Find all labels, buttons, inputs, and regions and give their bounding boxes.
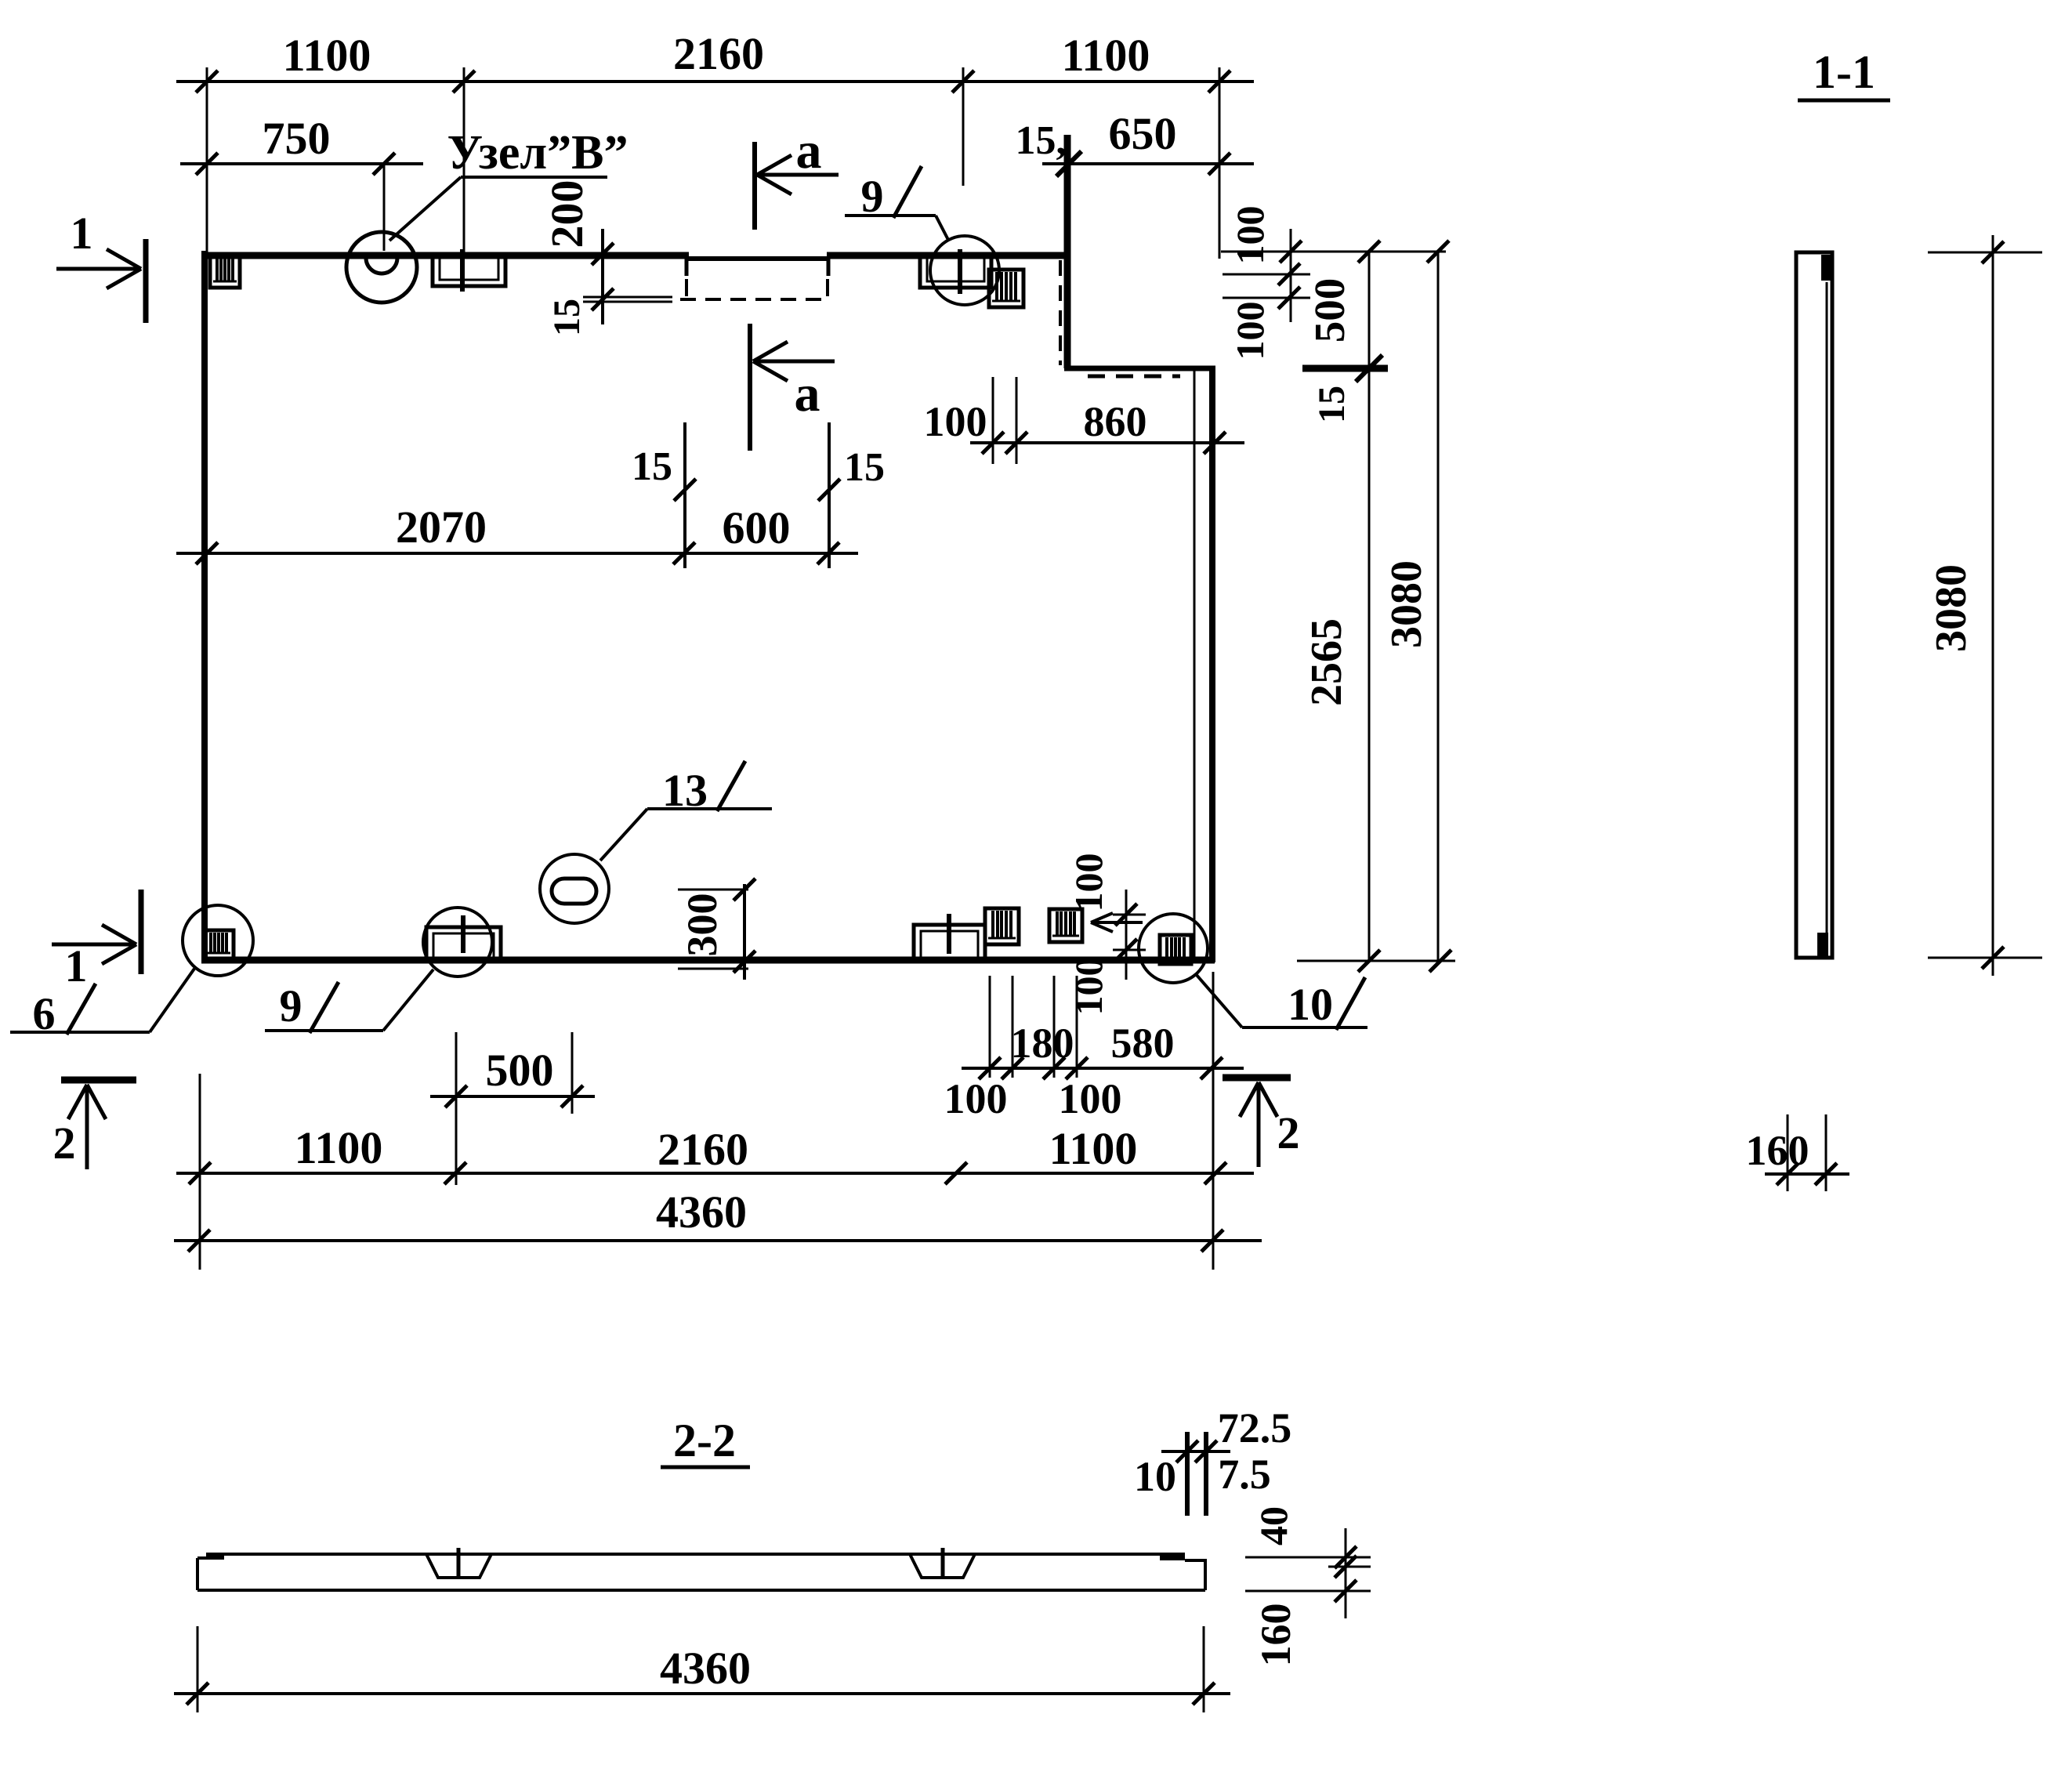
svg-text:160: 160 <box>1252 1603 1299 1667</box>
svg-text:1100: 1100 <box>295 1122 383 1173</box>
panel plan notch bottom hidden line (dashed) <box>1088 375 1180 379</box>
svg-text:3080: 3080 <box>1927 564 1976 652</box>
svg-text:15: 15 <box>546 299 588 336</box>
lifting slot (section 2-2, left) <box>426 1548 491 1578</box>
svg-text:100: 100 <box>1228 206 1272 265</box>
svg-text:500: 500 <box>1306 278 1353 343</box>
vent block V3 (hatched box, plan bottom-left corner) <box>204 930 234 959</box>
svg-text:200: 200 <box>542 180 592 248</box>
panel plan top-right notch left edge (thick bar) <box>1064 135 1071 368</box>
svg-text:860: 860 <box>1084 398 1147 445</box>
panel plan bottom edge <box>201 957 1215 964</box>
panel plan top edge right segment <box>827 252 1070 259</box>
svg-text:15: 15 <box>844 445 885 490</box>
svg-text:2160: 2160 <box>657 1124 748 1175</box>
svg-text:2070: 2070 <box>396 502 487 553</box>
panel plan top-right notch hidden edge (dashed) <box>1059 260 1062 365</box>
recess right vertical dash <box>826 279 829 296</box>
svg-text:580: 580 <box>1111 1020 1175 1067</box>
extension line at top edge level (right) <box>1221 241 1449 263</box>
svg-text:2-2: 2-2 <box>673 1415 736 1466</box>
dimension 72.5-10-7.5 (section 2-2 right) <box>1134 1404 1291 1516</box>
svg-text:1: 1 <box>71 208 93 259</box>
section mark 1 (top-left) <box>56 208 146 323</box>
recess right edge stub <box>827 259 831 276</box>
panel plan top-right notch bottom edge <box>1064 366 1215 371</box>
label 10 with leader (bottom-right) <box>1196 974 1367 1030</box>
panel plan top edge left segment <box>201 252 689 259</box>
dimension row 2070-600 <box>176 502 858 564</box>
vent block V4 (hatched box, plan bottom middle) <box>985 908 1019 944</box>
svg-text:1: 1 <box>65 940 88 991</box>
section 1-1 title <box>1798 46 1890 100</box>
label 9 with leader (top) <box>845 166 948 240</box>
detail circle 9 (top) <box>930 236 999 305</box>
svg-text:2565: 2565 <box>1302 618 1351 706</box>
svg-text:300: 300 <box>679 893 726 957</box>
svg-text:1100: 1100 <box>283 30 371 81</box>
svg-text:4360: 4360 <box>656 1187 747 1238</box>
label 6 with leader (bottom-left) <box>10 969 194 1039</box>
svg-text:10: 10 <box>1134 1453 1176 1500</box>
dimension 15-650 (top right) <box>1016 108 1255 176</box>
section mark 2 (bottom-right) <box>1223 1078 1300 1167</box>
dimension 500 (bottom) <box>430 1032 595 1185</box>
detail circle 13 with oval hole <box>540 854 609 923</box>
section mark 1 (bottom-left) <box>52 890 141 991</box>
extension line 100 below top (right) <box>1223 263 1310 285</box>
svg-text:7.5: 7.5 <box>1218 1451 1271 1498</box>
svg-text:a: a <box>796 122 822 179</box>
section mark 2 (bottom-left) <box>53 1080 137 1169</box>
dimension 3080 (section 1-1) <box>1927 235 2042 976</box>
svg-text:2160: 2160 <box>673 28 764 79</box>
svg-text:100: 100 <box>944 1075 1008 1122</box>
dimension line for 100-100 (right top) <box>1290 229 1292 322</box>
section mark a (top) <box>755 122 839 230</box>
recess left edge stub <box>685 259 689 276</box>
dimension 4360 (bottom) <box>174 1187 1262 1252</box>
svg-text:160: 160 <box>1746 1127 1809 1174</box>
dimension row 1100-2160-1100 (bottom) <box>176 1122 1254 1184</box>
dimension 3080 (right) <box>1382 252 1451 972</box>
section mark a (bottom) <box>750 324 835 451</box>
lifting slot M1 (open box, plan top edge left) <box>433 249 505 292</box>
recess bottom hidden line (dashed) <box>680 298 829 301</box>
svg-text:9: 9 <box>280 980 302 1031</box>
vent block V6 (hatched box, plan bottom-right corner) <box>1160 935 1191 964</box>
dimension 300 (vertical, bottom middle) <box>678 879 755 980</box>
recess bottom double line (solid part) <box>583 297 672 302</box>
svg-text:15: 15 <box>1311 386 1353 423</box>
section 1-1 panel body <box>1796 252 1832 958</box>
detail circle node B (Uzel V) <box>346 232 417 303</box>
extension lines for top row <box>207 67 1219 259</box>
svg-text:2: 2 <box>1277 1107 1300 1158</box>
svg-text:1100: 1100 <box>1049 1123 1138 1174</box>
dimension 500 (notch depth, right) <box>1302 278 1388 382</box>
svg-text:72.5: 72.5 <box>1218 1404 1292 1451</box>
svg-text:a: a <box>795 365 820 422</box>
label 9 with leader (bottom) <box>265 969 433 1033</box>
dimension 15 (recess left lower) <box>632 422 696 568</box>
svg-text:500: 500 <box>486 1045 554 1096</box>
svg-text:3080: 3080 <box>1382 560 1431 648</box>
svg-text:2: 2 <box>53 1118 76 1169</box>
svg-text:100: 100 <box>1067 853 1110 912</box>
detail circle 10 (bottom-right) <box>1139 914 1208 983</box>
text 15 (below notch bottom, right) <box>1311 386 1353 423</box>
lifting slot M4 (open box, plan bottom edge middle) <box>914 914 985 961</box>
dimension row line 1100-2160-1100 (top) <box>176 28 1254 92</box>
detail circle 9 (bottom) <box>423 908 492 977</box>
svg-text:100: 100 <box>1059 1075 1122 1122</box>
lifting slot M2 (open box, plan top edge right) <box>920 249 991 294</box>
dimension 750 (top row 2) <box>180 113 423 251</box>
dimension 160 (section 1-1) <box>1746 1114 1850 1191</box>
extension line 200 below top (right) <box>1223 287 1310 309</box>
arrow pointing to vent block V5 <box>1091 913 1143 932</box>
dimension 2565 (right) <box>1302 252 1380 972</box>
svg-text:600: 600 <box>723 502 791 553</box>
section 2-2 title <box>661 1415 750 1467</box>
extension lines for bottom rows <box>200 972 1213 1270</box>
recess left vertical dash <box>685 279 688 296</box>
text 100 (right top, second) <box>1228 302 1272 361</box>
svg-text:750: 750 <box>263 113 331 164</box>
svg-text:1100: 1100 <box>1062 30 1150 81</box>
dimension row 100-180-100-580 <box>944 1020 1244 1122</box>
svg-text:40: 40 <box>1252 1506 1295 1546</box>
text 100 (right top, first) <box>1228 206 1272 265</box>
dimension 15 (recess right lower) <box>818 422 885 568</box>
extension lines for 100-180-100 row <box>990 976 1077 1078</box>
vent block V1 (hatched box, plan top-left corner) <box>210 256 240 288</box>
panel plan right edge outer line <box>1209 366 1215 962</box>
label Uzel V with leader <box>389 126 628 241</box>
svg-text:15: 15 <box>632 444 672 489</box>
svg-text:1-1: 1-1 <box>1813 46 1875 98</box>
svg-text:10: 10 <box>1288 979 1333 1030</box>
lifting slot (section 2-2, right) <box>910 1548 975 1578</box>
svg-text:650: 650 <box>1109 108 1177 159</box>
dimension 200 and 15 (vertical at recess left) <box>542 180 614 337</box>
svg-text:15,: 15, <box>1016 118 1067 163</box>
dimension 100-100 vertical (bottom right) <box>1067 853 1146 1016</box>
vent block V2 (hatched box, right of slot M2) <box>989 270 1023 307</box>
svg-text:100: 100 <box>924 398 987 445</box>
svg-text:100: 100 <box>1228 302 1272 361</box>
svg-text:100: 100 <box>1067 957 1110 1016</box>
label 13 with leader <box>600 761 772 861</box>
panel plan right edge inner line <box>1194 368 1196 960</box>
lifting slot M3 (open box, plan bottom edge left) <box>426 915 501 959</box>
svg-text:Узел”В”: Узел”В” <box>447 126 628 179</box>
panel plan left edge <box>201 251 208 962</box>
vent block V5 (hatched box, plan bottom middle right) <box>1049 909 1082 942</box>
dimension 100-860 (below notch) <box>924 377 1245 464</box>
svg-text:180: 180 <box>1011 1020 1074 1067</box>
svg-text:4360: 4360 <box>660 1643 751 1694</box>
dimension 40 and 160 (section 2-2 right) <box>1245 1506 1371 1667</box>
panel plan top edge recessed middle segment <box>687 256 829 261</box>
dimension 4360 (section 2-2) <box>174 1626 1230 1712</box>
bottom extension line (right dims) <box>1297 960 1455 962</box>
section 2-2 panel body <box>197 1553 1205 1590</box>
detail circle 6 (bottom-left) <box>183 905 253 976</box>
